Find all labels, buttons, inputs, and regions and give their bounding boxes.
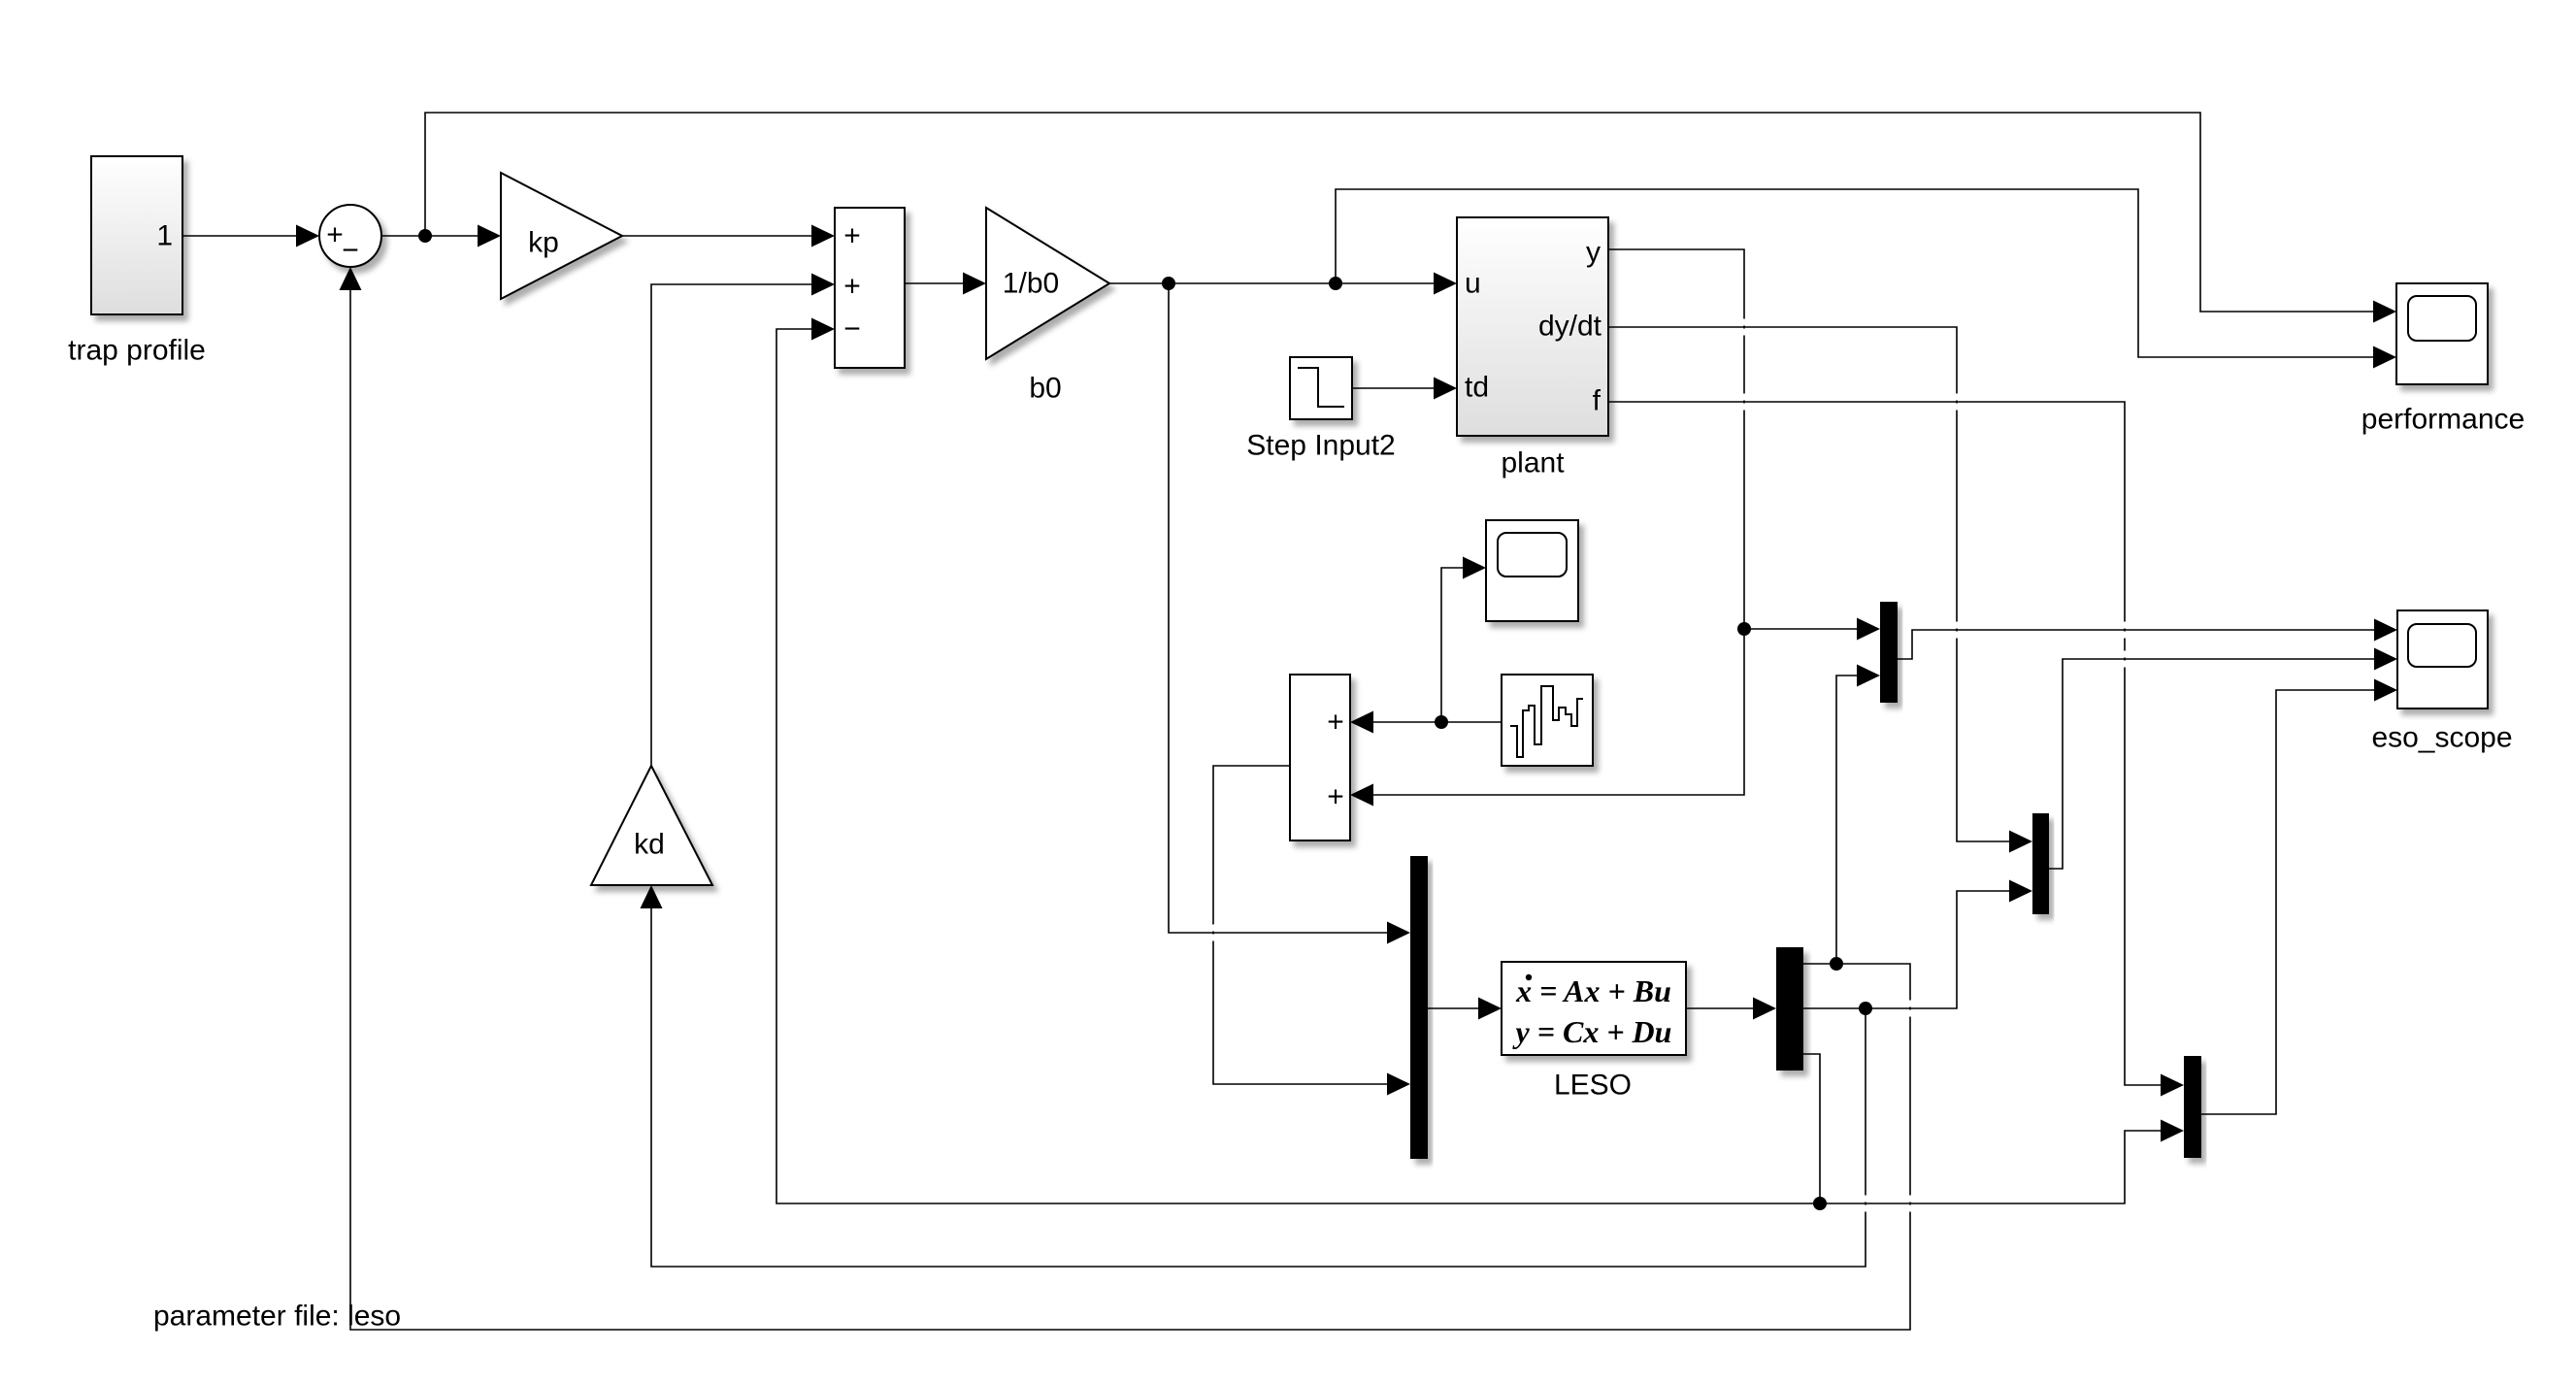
junction dot y_hat split (1830, 957, 1843, 971)
wire crossing gaps (vertical lines break under horizontal wires) (1210, 319, 2128, 1212)
wire LESO block to demux (1686, 1007, 1755, 1009)
svg-text:+: + (1327, 781, 1344, 813)
wire mux3 output to eso_scope input 3 (2201, 690, 2376, 1114)
wire LESO input mux to LESO block (1428, 1007, 1480, 1009)
wire noise block output to junction (1441, 721, 1502, 723)
dot above x in LESO equation line 1 (1526, 974, 1532, 980)
arrowhead into mux3 input 1 (2161, 1074, 2184, 1097)
wire y_hat junction to Sum circle minus input (350, 288, 1910, 1330)
wire mux1 output to eso_scope input 1 (1898, 630, 2376, 659)
arrowhead into mux1 input 1 (1857, 618, 1880, 641)
wire demux output 2 to junction (1803, 1007, 1866, 1009)
arrowhead into sum block input 3 (811, 318, 835, 341)
wire f_hat feedback to sum block input 3 (776, 329, 1820, 1203)
svg-text:+: + (843, 271, 861, 303)
wire error branch to performance scope input 1 (425, 113, 2375, 312)
arrowhead into LESO input mux input 1 (1387, 922, 1410, 944)
wire mux2 output to eso_scope input 2 (2049, 659, 2376, 869)
wire sum2 output to LESO input mux input 2 (1213, 766, 1389, 1084)
scope performance (2396, 283, 2488, 384)
svg-text:dy/dt: dy/dt (1538, 311, 1602, 343)
scope block middle (1486, 520, 1578, 621)
junction dot after Sum circle (418, 229, 432, 243)
wire kd output to sum block input 2 (651, 284, 813, 767)
wire demux output 1 to junction (1803, 963, 1836, 965)
mux2 (2032, 813, 2049, 914)
arrowhead left-pointing into sum2 input 2 (1350, 784, 1373, 807)
svg-text:x = Ax + Bu: x = Ax + Bu (1515, 973, 1671, 1008)
wire dy_hat junction down to kd gain input (651, 906, 1866, 1267)
svg-text:kd: kd (634, 829, 665, 861)
wire plant output f to mux3 input 1 (1608, 402, 2163, 1085)
wire demux output 3 down to f_hat junction (1803, 1054, 1820, 1203)
junction dot f_hat split (1813, 1197, 1827, 1210)
arrowhead into demux (1753, 998, 1776, 1020)
svg-text:td: td (1465, 372, 1489, 404)
svg-text:1: 1 (156, 220, 173, 252)
noise block (1502, 675, 1593, 766)
svg-text:+: + (843, 220, 861, 252)
svg-text:f: f (1593, 385, 1602, 417)
wire 1/b0 output to plant input u (1109, 282, 1436, 284)
arrowhead into performance scope input 2 (2373, 346, 2396, 369)
wire f_hat junction to mux3 input 2 (1820, 1131, 2163, 1203)
arrowhead into performance scope input 1 (2373, 301, 2396, 323)
junction dot u signal drop (1162, 277, 1175, 290)
gain 1/b0 (986, 208, 1109, 359)
arrowhead into 1/b0 gain (963, 273, 986, 295)
arrowhead up-pointing into Sum circle bottom input (340, 267, 362, 290)
arrowhead into plant input td (1434, 378, 1457, 400)
eso_scope screen (2408, 624, 2476, 667)
svg-text:parameter file: leso: parameter file: leso (153, 1301, 401, 1333)
arrowhead left-pointing into sum2 input 1 (1350, 711, 1373, 734)
noise waveform icon (1510, 686, 1583, 757)
wire noise junction up to scope (1441, 568, 1465, 722)
wire u branch to performance scope input 2 (1336, 189, 2375, 357)
arrowhead into mux3 input 2 (2161, 1120, 2184, 1142)
wire Sum circle to kp gain (380, 235, 479, 237)
arrowhead into kp gain (478, 225, 501, 247)
arrowhead into eso_scope input 1 (2374, 619, 2397, 642)
LESO input mux (1410, 856, 1428, 1159)
arrowhead into mux1 input 2 (1857, 665, 1880, 687)
block Step Input2 (1290, 357, 1352, 419)
svg-text:y = Cx + Du: y = Cx + Du (1512, 1014, 1672, 1049)
arrowhead up-pointing into kd gain (641, 885, 663, 908)
arrowhead into mux2 input 2 (2009, 880, 2032, 903)
sum2 block (1290, 675, 1350, 840)
svg-text:y: y (1586, 237, 1601, 269)
mux1 (1880, 602, 1898, 703)
gain kp (501, 173, 622, 299)
svg-text:plant: plant (1501, 447, 1565, 479)
arrowhead into plant input u (1434, 273, 1457, 295)
svg-text:1/b0: 1/b0 (1003, 268, 1059, 300)
arrowhead into scope (1463, 557, 1486, 579)
wire y junction to mux1 input 1 (1744, 628, 1859, 630)
mux3 (2184, 1056, 2201, 1158)
svg-text:+: + (326, 219, 344, 251)
arrowhead into sum block input 1 (811, 225, 835, 247)
sum circle (319, 205, 381, 267)
junction dot noise split (1435, 715, 1448, 729)
LESO state-space block (1502, 962, 1686, 1055)
arrowhead into mux2 input 1 (2009, 831, 2032, 853)
wire y_hat junction up to mux1 input 2 (1836, 676, 1859, 964)
svg-text:LESO: LESO (1554, 1070, 1632, 1102)
arrowhead into eso_scope input 2 (2374, 648, 2397, 671)
arrowhead into LESO block (1478, 998, 1502, 1020)
wire kp output to sum block input 1 (622, 235, 813, 237)
svg-text:kp: kp (528, 227, 559, 259)
wire Step Input2 to plant input td (1352, 387, 1436, 389)
junction dot y signal split (1737, 622, 1751, 636)
svg-text:−: − (342, 235, 359, 267)
sum block (835, 208, 905, 368)
junction dot u signal to performance (1329, 277, 1342, 290)
wire sum block to 1/b0 gain (905, 282, 965, 284)
scope eso_scope (2397, 610, 2488, 708)
wire plant output dy/dt to mux2 input 1 (1608, 327, 2011, 841)
wire trap profile to Sum circle (182, 235, 298, 237)
demux (1776, 947, 1803, 1071)
scope screen (1498, 533, 1567, 577)
performance scope screen (2408, 296, 2476, 341)
svg-text:Step Input2: Step Input2 (1246, 430, 1395, 462)
svg-text:eso_scope: eso_scope (2371, 722, 2512, 754)
svg-text:u: u (1465, 268, 1481, 300)
arrowhead into eso_scope input 3 (2374, 679, 2397, 702)
wire plant output y to junction (1608, 249, 1744, 629)
block plant (1457, 217, 1608, 436)
step icon (1298, 368, 1344, 407)
wire y junction down to sum2 input 2 (1371, 629, 1744, 795)
wire noise junction to sum2 input 1 (1371, 721, 1441, 723)
arrowhead into LESO input mux input 2 (1387, 1073, 1410, 1096)
block trap profile (91, 156, 182, 314)
wire u branch down to LESO input mux input 1 (1169, 283, 1389, 933)
svg-text:−: − (843, 313, 861, 346)
junction dot dy_hat split (1859, 1002, 1872, 1015)
svg-text:b0: b0 (1029, 373, 1061, 405)
svg-text:trap profile: trap profile (68, 335, 206, 367)
svg-text:+: + (1327, 707, 1344, 739)
arrowhead into sum block input 2 (811, 274, 835, 296)
gain kd (591, 766, 712, 885)
arrowhead into Sum circle left input (296, 225, 319, 247)
wire dy_hat junction to mux2 input 2 (1866, 891, 2011, 1008)
svg-text:performance: performance (2361, 404, 2525, 436)
